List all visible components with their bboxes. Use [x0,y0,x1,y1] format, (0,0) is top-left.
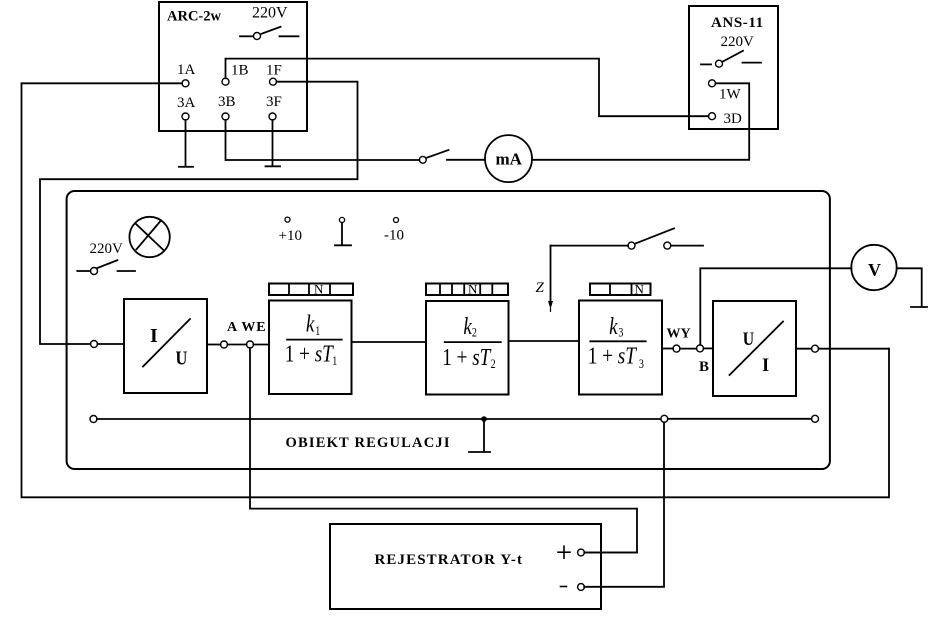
converter I/U [124,299,207,393]
block k2 [426,301,509,395]
wire 1A to left vertical down and bottom run to right vertical [22,83,890,497]
svg-text:ARC-2w: ARC-2w [167,9,221,25]
wire k2 to k3 [509,340,580,342]
svg-text:220V: 220V [252,5,288,22]
svg-text:3D: 3D [724,111,743,127]
wire 3B down and right to switch [226,120,420,160]
wire node to REJESTRATOR minus [584,422,664,587]
node circle bottom left [90,416,97,423]
svg-text:N: N [635,282,645,297]
node circle after I/U [221,341,228,348]
wire 1B up over to ANS-11 3D [226,59,709,117]
wire rail continues [668,418,812,420]
svg-text:ANS-11: ANS-11 [711,15,764,31]
wire node B to U/I [704,347,714,349]
svg-text:V: V [868,260,881,280]
terminal 1W [709,80,742,103]
switch Z [551,228,704,249]
svg-text:1 + sT: 1 + sT [285,340,335,367]
wire I/U output to node A WE [207,344,221,346]
svg-text:3F: 3F [266,94,282,110]
svg-text:1A: 1A [177,62,196,78]
svg-text:220V: 220V [721,34,755,50]
svg-text:REJESTRATOR Y-t: REJESTRATOR Y-t [375,552,524,568]
switch for lamp [77,260,135,274]
svg-text:I: I [762,356,769,376]
switch in ARC-2w [240,27,299,40]
converter U/I [713,301,796,396]
box OBIEKT REGULACJI [67,191,830,469]
svg-text:N: N [468,282,478,297]
ground at voltmeter [897,268,927,307]
wire output to right vertical [819,348,890,350]
svg-text:1: 1 [332,355,337,368]
wire between node circles [228,344,247,346]
terminal -10 [384,218,404,244]
wire k3 to node WY [662,348,673,350]
terminal +10 [279,217,302,244]
svg-text:3: 3 [639,358,644,371]
ground on rail [469,419,490,452]
wire 1F right, down, left, down to input node [40,82,358,344]
wire node A WE to k1 [254,344,270,346]
svg-text:B: B [699,359,709,375]
terminal 1B [222,63,249,86]
svg-text:+10: +10 [279,228,302,244]
svg-text:Z: Z [536,280,545,296]
svg-text:k: k [463,313,472,340]
terminal plus [558,546,584,558]
terminal 3D [709,111,743,127]
svg-text:I: I [150,325,158,347]
node circle bottom right of rail [661,415,668,422]
terminal 3A [177,95,196,120]
svg-text:mA: mA [496,150,523,169]
block k1 [269,301,352,395]
wire U/I output [796,348,812,350]
wire mA to ANS-11 1W [532,83,749,160]
svg-text:1: 1 [315,325,320,338]
terminal 3B [218,94,236,120]
arrow Z into node between k2 and k3 [536,246,554,312]
wire A WE down to REJESTRATOR plus [250,348,637,553]
voltmeter V [851,245,896,290]
terminal 3F [266,94,282,120]
svg-text:220V: 220V [90,241,124,257]
svg-text:WY: WY [667,327,691,342]
svg-text:OBIEKT REGULACJI: OBIEKT REGULACJI [286,435,451,451]
svg-text:3: 3 [618,327,623,340]
input terminal circle left [91,341,125,348]
svg-text:1W: 1W [719,87,742,103]
box ANS-11 [689,6,778,129]
ground at 3F [266,120,281,166]
ground at 3A [179,120,193,167]
node circle U/I output [812,345,819,352]
ground terminal between +10 and -10 [335,217,351,245]
potentiometer strip above k3 [590,282,651,297]
node circle bottom far right [812,415,819,422]
switch in ANS-11 [701,51,761,67]
box ARC-2w [159,2,307,131]
terminal 1A [177,62,196,87]
svg-text:A WE: A WE [227,320,267,335]
terminal minus [561,584,585,591]
svg-text:1B: 1B [231,63,249,79]
wire bottom common rail [97,418,661,420]
svg-text:N: N [314,282,324,297]
lamp 220V [90,217,170,257]
svg-text:1 + sT: 1 + sT [588,343,638,370]
svg-text:2: 2 [472,327,477,340]
wire k1 to k2 [352,341,427,343]
svg-text:U: U [743,329,754,349]
svg-text:1F: 1F [266,63,282,79]
svg-text:-10: -10 [384,228,404,244]
wire plus to vertical [584,552,637,554]
wire between WY nodes [680,348,697,350]
potentiometer strip above k2 [426,282,508,297]
node B [697,345,704,352]
wire node B up to voltmeter [700,268,851,345]
svg-text:2: 2 [491,358,496,371]
svg-text:3B: 3B [218,94,236,110]
svg-text:U: U [176,347,188,370]
svg-text:3A: 3A [177,95,196,111]
node circle WY [673,345,680,352]
block k3 [579,301,662,395]
terminal 1F [266,63,282,86]
node A WE [247,341,254,348]
svg-text:1 + sT: 1 + sT [442,344,492,371]
junction dot on rail [481,416,487,422]
switch before mA meter [419,150,485,163]
ammeter mA [485,135,532,182]
potentiometer strip above k1 [269,282,353,297]
box REJESTRATOR Y-t [330,524,601,609]
svg-text:k: k [609,313,618,340]
svg-text:k: k [306,311,315,338]
